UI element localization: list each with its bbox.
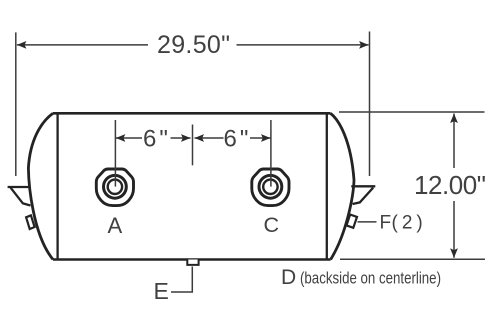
dim 6 left line — [116, 137, 142, 139]
right mounting bracket — [351, 186, 375, 204]
dim 29.50 left extension line — [15, 32, 17, 176]
port C inner ring — [263, 180, 277, 194]
svg-text:F: F — [380, 213, 392, 234]
dim 6 right arrow — [261, 134, 271, 142]
dim 6 extension line at port A — [114, 120, 116, 187]
leader F — [358, 221, 377, 223]
svg-text:D: D — [281, 266, 296, 289]
right weld seam — [326, 113, 328, 259]
svg-text:(backside on centerline): (backside on centerline) — [300, 270, 441, 288]
dim 6 extension line at centerline — [192, 125, 194, 166]
dim 12.00 top extension line — [339, 111, 485, 113]
svg-text:(2): (2) — [392, 213, 427, 234]
port C outer ring — [259, 175, 282, 198]
dim 12.00 bottom extension line — [340, 258, 485, 260]
svg-text:29.50": 29.50" — [157, 31, 230, 59]
dim 29.50 line right segment — [237, 44, 369, 46]
svg-text:6": 6" — [143, 126, 171, 153]
left mounting bracket — [8, 187, 31, 206]
dim 29.50 right arrow — [359, 41, 369, 49]
svg-text:12.00": 12.00" — [414, 170, 486, 200]
dim 12.00 up arrow — [450, 114, 458, 124]
port A inner ring — [108, 180, 122, 194]
dim 6 center-left arrow — [181, 134, 191, 142]
left end cap — [28, 113, 53, 259]
fitting F — [347, 215, 358, 228]
dim 6 left-right line — [171, 137, 191, 139]
left weld seam — [56, 113, 58, 259]
dim 6 left arrow — [116, 134, 126, 142]
svg-text:C: C — [264, 213, 280, 237]
tank top edge — [53, 112, 331, 115]
port A boss — [96, 169, 133, 206]
svg-text:E: E — [154, 278, 169, 304]
dim 6 extension line at port C — [270, 120, 272, 187]
dim 6 right line a — [195, 137, 224, 139]
port A outer ring — [104, 175, 127, 198]
dim 12.00 down arrow — [450, 248, 458, 257]
right end cap — [331, 113, 354, 259]
dim 6 right line b — [250, 137, 271, 139]
tank bottom edge — [53, 258, 331, 260]
leader E vertical — [171, 267, 192, 293]
dim 29.50 right extension line — [369, 32, 371, 177]
port E stub — [187, 260, 198, 265]
dim 12.00 line upper — [453, 114, 455, 169]
dim 29.50 left arrow — [17, 41, 27, 49]
left drain fitting — [26, 215, 34, 229]
dim 12.00 line lower — [453, 201, 455, 258]
dim 6 center-right arrow — [195, 134, 205, 142]
svg-text:6": 6" — [224, 126, 252, 153]
port C boss — [252, 169, 289, 206]
dim 29.50 line left segment — [17, 44, 148, 46]
svg-text:A: A — [108, 213, 123, 238]
